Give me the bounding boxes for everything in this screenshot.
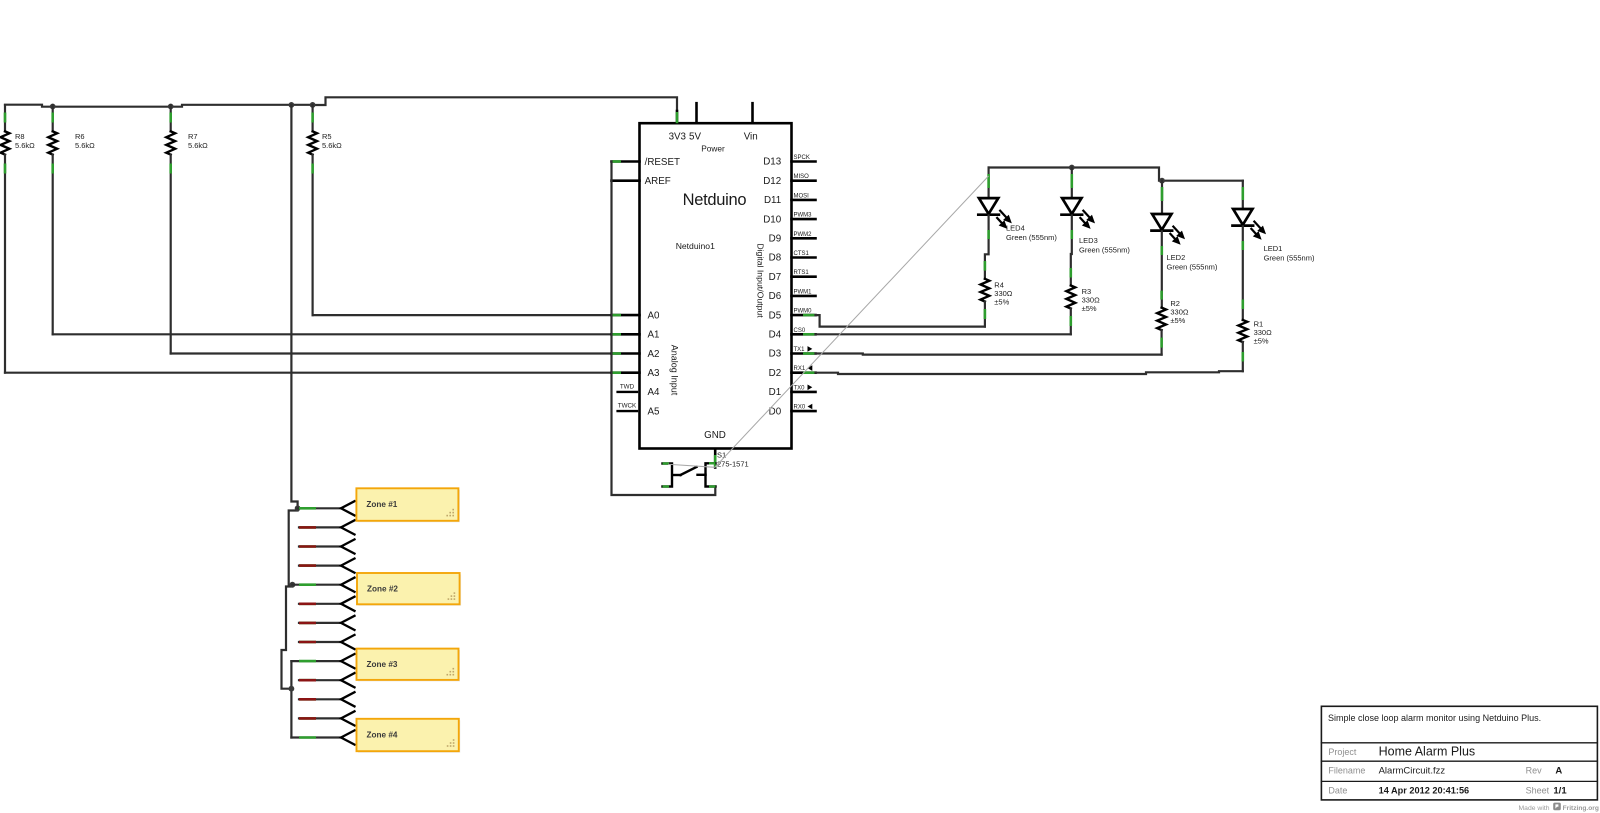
svg-text:TX1: TX1: [794, 347, 806, 353]
wire R7 to pin: [171, 352, 612, 354]
svg-text:PWM2: PWM2: [794, 232, 813, 238]
pin D1: [792, 391, 816, 394]
svg-text:A1: A1: [648, 330, 660, 341]
pin Vin: [751, 103, 754, 123]
svg-text:1/1: 1/1: [1553, 785, 1567, 796]
LED LED3: [1071, 168, 1073, 199]
wire RESET to S1: [612, 162, 716, 496]
pin D11: [792, 199, 816, 202]
svg-text:3V3: 3V3: [669, 132, 687, 143]
resistor R4 330: [984, 261, 987, 271]
svg-text:TWCK: TWCK: [618, 403, 637, 410]
svg-text:D11: D11: [764, 195, 781, 206]
svg-text:TWD: TWD: [620, 383, 635, 390]
svg-text:LED3: LED3: [1079, 236, 1098, 245]
svg-text:Made with: Made with: [1519, 805, 1550, 812]
svg-text:PWM1: PWM1: [794, 289, 813, 295]
pin D4: [792, 333, 816, 336]
svg-text:D2: D2: [769, 368, 782, 379]
resistor R7 5.6k: [170, 105, 172, 131]
node zone34: [289, 686, 295, 692]
switch S1 275-1571: [663, 464, 673, 487]
pin D5: [792, 314, 816, 317]
svg-text:A2: A2: [648, 349, 660, 360]
svg-text:14 Apr 2012 20:41:56: 14 Apr 2012 20:41:56: [1379, 785, 1470, 795]
resistor R6 5.6k: [52, 105, 54, 131]
svg-text:CTS1: CTS1: [794, 251, 810, 257]
svg-text:A4: A4: [648, 387, 661, 398]
zone pin row 6: [299, 603, 341, 605]
svg-text:A3: A3: [648, 368, 661, 379]
svg-text:5.6kΩ: 5.6kΩ: [322, 141, 342, 150]
svg-text:A: A: [1555, 766, 1562, 777]
wire bus to 3V3: [313, 97, 677, 111]
svg-text:LED2: LED2: [1167, 253, 1186, 262]
svg-text:Project: Project: [1328, 747, 1357, 757]
svg-text:R5: R5: [322, 132, 332, 141]
svg-text:S1: S1: [717, 451, 726, 460]
pin A0: [612, 314, 640, 317]
wire TX1/D3 to R2: [816, 354, 1162, 355]
wire RX1/D2 to R1: [816, 371, 1243, 374]
IC Netduino1 body: [640, 123, 792, 448]
node bus-R6: [50, 104, 56, 110]
svg-text:D9: D9: [769, 234, 782, 245]
pin A3: [612, 371, 640, 374]
svg-text:R8: R8: [15, 132, 25, 141]
svg-text:A5: A5: [648, 406, 661, 417]
resistor R1 330: [1242, 300, 1245, 310]
node LED2 bus: [1159, 178, 1165, 184]
svg-text:R6: R6: [75, 132, 85, 141]
svg-text:5.6kΩ: 5.6kΩ: [188, 141, 208, 150]
svg-text:A0: A0: [648, 310, 661, 321]
svg-text:GND: GND: [704, 430, 726, 441]
svg-text:5.6kΩ: 5.6kΩ: [15, 141, 35, 150]
svg-text:Rev: Rev: [1526, 766, 1543, 776]
svg-text:/RESET: /RESET: [645, 157, 680, 168]
wire R6 to pin: [53, 333, 612, 335]
svg-text:Zone #2: Zone #2: [367, 585, 398, 594]
svg-text:D8: D8: [769, 253, 782, 264]
svg-text:D10: D10: [763, 214, 782, 225]
zone pin row 1: [298, 507, 341, 509]
pin D13: [792, 160, 816, 163]
svg-text:TX0: TX0: [794, 385, 806, 391]
pin /RESET: [612, 160, 640, 163]
node bus-zone: [289, 102, 295, 108]
pin AREF: [612, 179, 640, 182]
svg-text:D13: D13: [763, 157, 782, 168]
pin D0: [792, 410, 816, 413]
pin D10: [792, 218, 816, 221]
node LED3 bus: [1069, 165, 1075, 171]
svg-text:Zone #4: Zone #4: [367, 730, 398, 739]
zone pin row 8: [299, 641, 341, 643]
made with fritzing: [1519, 803, 1599, 812]
zone pin row 10: [299, 679, 341, 681]
resistor R3 330: [1070, 268, 1073, 278]
svg-text:MOSI: MOSI: [794, 193, 810, 199]
svg-text:Power: Power: [701, 144, 725, 154]
svg-text:SPCK: SPCK: [794, 155, 810, 161]
svg-text:RX1: RX1: [794, 366, 806, 372]
zone pin row 13: [291, 736, 341, 738]
svg-text:PWM3: PWM3: [794, 213, 813, 219]
svg-text:Zone #3: Zone #3: [367, 660, 398, 669]
svg-text:AREF: AREF: [645, 176, 671, 187]
svg-text:RTS1: RTS1: [794, 270, 810, 276]
note Zone #1: [358, 490, 460, 523]
svg-text:D3: D3: [769, 349, 782, 360]
svg-text:±5%: ±5%: [1170, 316, 1185, 325]
note Zone #4: [358, 720, 460, 752]
pin D6: [792, 295, 816, 298]
resistor R8 5.6k: [4, 105, 6, 131]
wire zone bus vertical: [291, 105, 297, 508]
ratsnest S1 to LED4: [668, 176, 989, 467]
svg-text:D7: D7: [769, 272, 782, 283]
pin GND: [714, 450, 717, 468]
pin D9: [792, 237, 816, 240]
svg-text:D12: D12: [763, 176, 781, 187]
pin A1: [612, 333, 640, 336]
wire PWM0/D5 to R4: [816, 315, 985, 327]
LED LED4: [987, 168, 989, 199]
svg-text:Green (555nm): Green (555nm): [1264, 254, 1315, 263]
svg-text:AlarmCircuit.fzz: AlarmCircuit.fzz: [1379, 766, 1446, 777]
zone pin row 4: [299, 564, 341, 566]
pin A4 TWD: [618, 391, 637, 393]
svg-text:Green (555nm): Green (555nm): [1167, 263, 1218, 272]
zone pin row 9: [291, 660, 341, 662]
zone pin row 11: [299, 698, 341, 700]
svg-text:LED1: LED1: [1264, 244, 1283, 253]
svg-text:Fritzing.org: Fritzing.org: [1563, 805, 1599, 812]
svg-text:Date: Date: [1328, 785, 1347, 795]
svg-text:±5%: ±5%: [994, 298, 1009, 307]
zone pin row 2: [299, 526, 341, 528]
pin 5V: [695, 103, 698, 123]
svg-text:Vin: Vin: [744, 132, 758, 143]
pin D12: [792, 179, 816, 182]
svg-text:D6: D6: [769, 291, 782, 302]
svg-text:Green (555nm): Green (555nm): [1079, 246, 1130, 255]
svg-text:±5%: ±5%: [1254, 337, 1269, 346]
wire CS0/D4 to R3: [816, 333, 1071, 335]
node bus-R7: [168, 104, 174, 110]
pin A2: [612, 352, 640, 355]
node bus-R5: [310, 102, 316, 108]
svg-text:Sheet: Sheet: [1526, 785, 1550, 795]
resistor R5 5.6k: [312, 105, 314, 131]
svg-text:RX0: RX0: [794, 405, 806, 411]
node zone1: [295, 505, 301, 511]
svg-text:Netduino1: Netduino1: [676, 241, 715, 251]
note Zone #3: [358, 650, 460, 681]
resistor R2 330: [1160, 291, 1163, 300]
svg-text:Green (555nm): Green (555nm): [1006, 233, 1057, 242]
svg-text:R7: R7: [188, 132, 198, 141]
zone pin row 3: [299, 545, 341, 547]
wire R8 to pin: [5, 372, 612, 374]
svg-text:Analog Input: Analog Input: [670, 345, 680, 396]
svg-text:LED4: LED4: [1006, 224, 1025, 233]
svg-text:Home Alarm Plus: Home Alarm Plus: [1379, 745, 1476, 759]
svg-text:MISO: MISO: [794, 174, 810, 180]
wire top bus: [5, 105, 313, 107]
svg-text:±5%: ±5%: [1082, 304, 1097, 313]
pin D3: [792, 352, 816, 355]
svg-text:PWM0: PWM0: [794, 309, 813, 315]
pin A5 TWCK: [618, 410, 637, 412]
svg-text:D5: D5: [769, 310, 782, 321]
node zone2: [290, 582, 296, 588]
svg-text:D4: D4: [769, 330, 782, 341]
note Zone #2: [359, 575, 462, 606]
pin D2: [792, 371, 816, 374]
wire LED bus: [989, 168, 1243, 181]
zone pin row 12: [299, 717, 341, 719]
pin 3V3: [676, 111, 679, 123]
svg-text:Simple close loop alarm monito: Simple close loop alarm monitor using Ne…: [1328, 713, 1541, 723]
LED LED2: [1161, 181, 1163, 214]
svg-text:Filename: Filename: [1328, 766, 1365, 776]
svg-text:275-1571: 275-1571: [717, 460, 749, 469]
zone pin row 7: [299, 622, 341, 624]
svg-text:5V: 5V: [689, 132, 701, 143]
svg-text:5.6kΩ: 5.6kΩ: [75, 141, 95, 150]
LED LED1: [1242, 181, 1244, 209]
title block: [1321, 706, 1597, 800]
svg-text:D1: D1: [769, 387, 782, 398]
zone pin row 5: [292, 584, 341, 586]
pin D7: [792, 275, 816, 278]
wire R5 to pin: [313, 314, 612, 316]
pin D8: [792, 256, 816, 259]
svg-text:Digital Input/Output: Digital Input/Output: [756, 243, 766, 318]
svg-text:Zone #1: Zone #1: [366, 500, 397, 509]
svg-text:Netduino: Netduino: [683, 191, 747, 209]
svg-text:CS0: CS0: [794, 328, 806, 334]
